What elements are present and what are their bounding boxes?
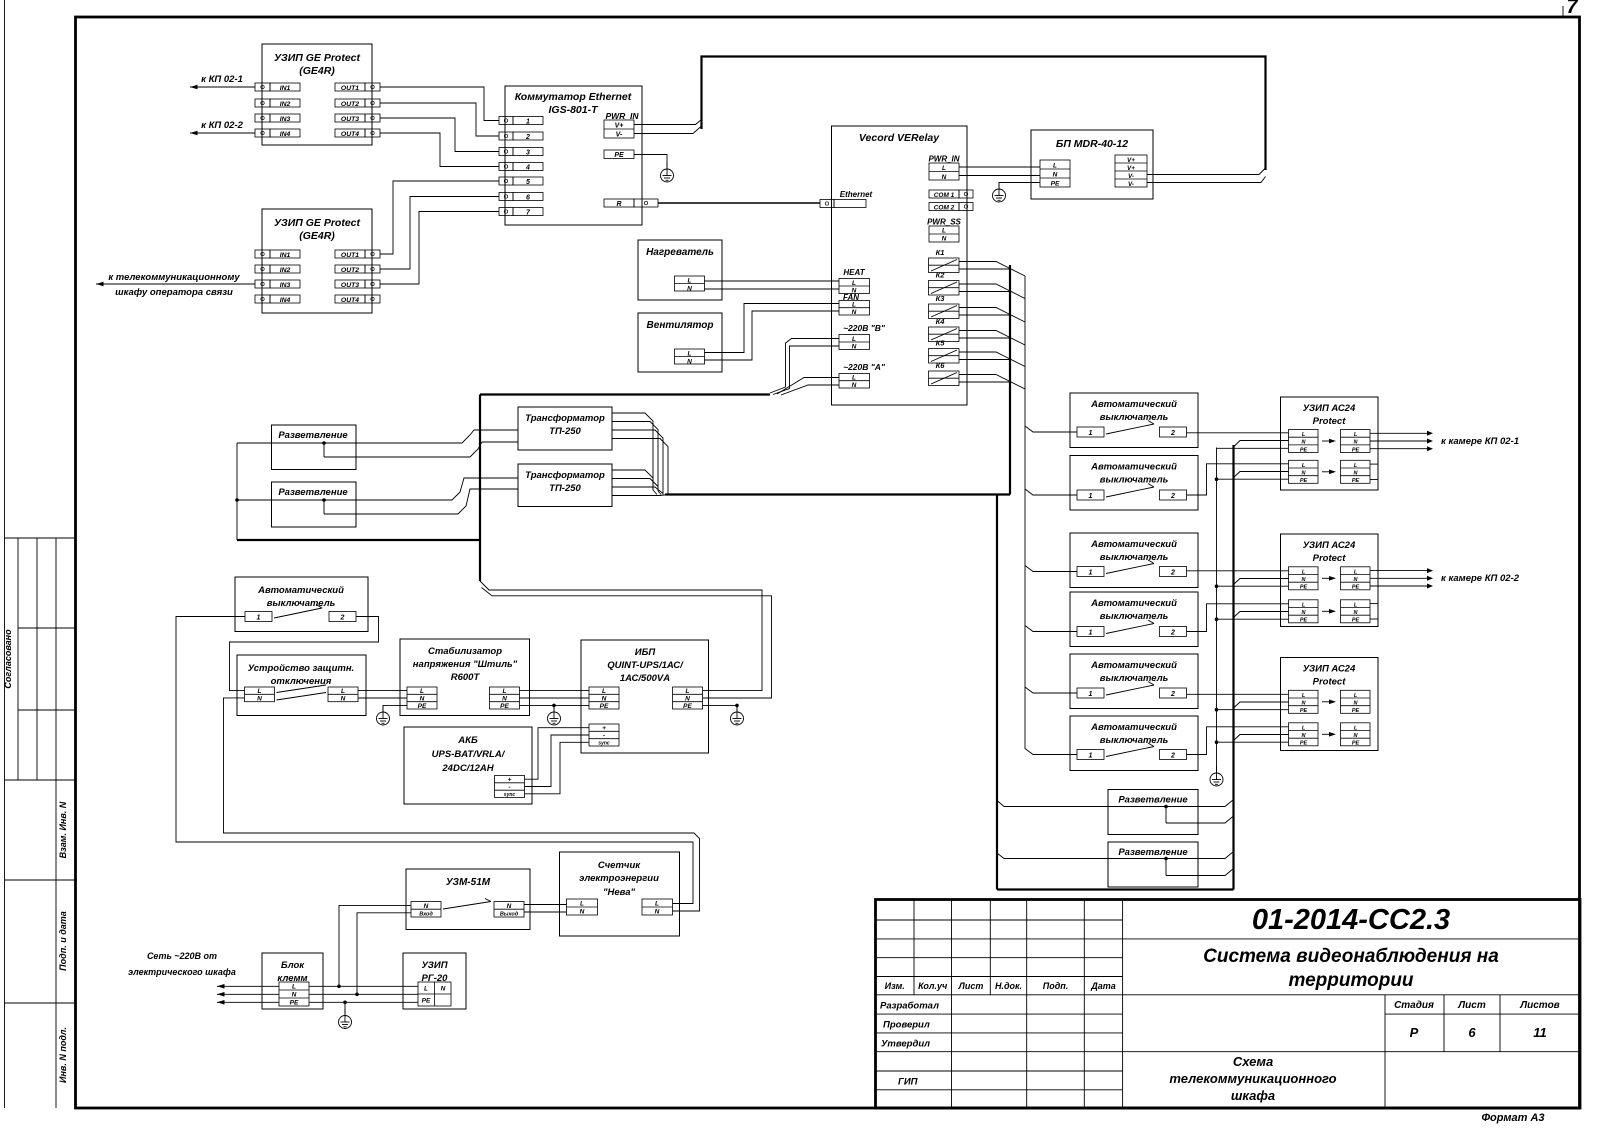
svg-text:V-: V- [1128, 181, 1134, 188]
wires relay K5 taps to risers [959, 352, 1010, 359]
svg-text:~220В "А": ~220В "А" [843, 362, 886, 372]
title block stage table [1394, 1000, 1560, 1011]
stabilizer output terminal L/N/PE [490, 687, 520, 710]
svg-text:sync: sync [504, 792, 516, 798]
svg-text:PE: PE [290, 1000, 299, 1007]
svg-text:V+: V+ [615, 123, 624, 130]
svg-text:N: N [687, 285, 692, 292]
УЗИП2 row2 output stubs [1370, 604, 1378, 619]
svg-text:OUT1: OUT1 [341, 85, 359, 92]
svg-text:PE: PE [1352, 741, 1360, 747]
battery terminal +/-/sync [495, 776, 525, 798]
svg-text:HEAT: HEAT [843, 268, 865, 277]
switch port 4 [499, 163, 543, 172]
svg-text:Коммутатор Ethernet: Коммутатор Ethernet [515, 91, 632, 103]
svg-text:2: 2 [525, 134, 530, 141]
УЗИП АС24 #2 row1 arrow [1322, 576, 1336, 581]
svg-text:UPS-BAT/VRLA/: UPS-BAT/VRLA/ [432, 749, 506, 760]
svg-text:Автоматический: Автоматический [1090, 598, 1177, 609]
VERelay PWR_SS terminal [927, 218, 961, 243]
wire splitter2 out top to transformer T2 [324, 478, 518, 500]
svg-text:Лист: Лист [958, 981, 984, 991]
svg-text:4: 4 [525, 165, 530, 172]
svg-text:шкафу оператора связи: шкафу оператора связи [115, 287, 233, 298]
U1 terminal IN1 [255, 83, 300, 92]
relay contact K1 [929, 248, 960, 273]
wire splitter1 out bottom to transformer T1 [324, 442, 518, 457]
svg-text:Vecord VERelay: Vecord VERelay [859, 132, 940, 144]
wire УЗМ input bottom from mains N riser [357, 913, 411, 995]
24V bus (thick): horizontal to relay riser [665, 493, 1010, 495]
svg-text:1АС/500VА: 1АС/500VА [620, 673, 670, 684]
wire switch V- tap to DC bus [634, 126, 702, 134]
svg-text:N: N [687, 358, 692, 365]
svg-text:1: 1 [1089, 570, 1093, 577]
svg-text:PE: PE [1300, 618, 1308, 624]
meter box: Счетчик электроэнергии "Нева" [560, 852, 680, 936]
svg-text:к телекоммуникационному: к телекоммуникационному [108, 272, 240, 283]
svg-text:L: L [420, 688, 424, 695]
svg-text:Разветвление: Разветвление [1118, 847, 1188, 858]
svg-text:COM 1: COM 1 [934, 192, 955, 199]
svg-text:PE: PE [1352, 585, 1360, 591]
svg-text:N: N [341, 696, 346, 703]
svg-text:L: L [292, 984, 296, 991]
switch PWR_IN terminal [604, 111, 639, 139]
wire RCD left N to meter (N) [224, 698, 700, 911]
svg-text:Разветвление: Разветвление [278, 487, 348, 498]
RCD switch blades [277, 685, 327, 700]
svg-text:БП MDR-40-12: БП MDR-40-12 [1056, 138, 1128, 150]
wires relay K6 taps to risers [959, 375, 1010, 382]
wires relay K3 taps to risers [959, 308, 1010, 315]
svg-text:Автоматический: Автоматический [1090, 399, 1177, 410]
УЗИП2 output wires to camera КП 02-2 [1370, 568, 1433, 588]
wire riser branch to QF7-1 [1025, 749, 1077, 755]
wire R to VERelay Ethernet [658, 202, 820, 204]
circuit breaker QF4 (right column #3) [1070, 533, 1198, 588]
wire battery + to UPS [525, 728, 590, 780]
wire fan L to FAN [705, 304, 840, 353]
svg-text:Подп. и дата: Подп. и дата [58, 911, 68, 971]
battery box: АКБ UPS-BAT/VRLA/24DC/12АН [404, 727, 532, 804]
wire battery - to UPS [525, 735, 590, 787]
wire N bus tap to УЗИП1 row2 N [1234, 472, 1289, 478]
svg-text:1: 1 [1089, 630, 1093, 637]
svg-text:+: + [602, 725, 606, 732]
svg-text:R: R [616, 201, 621, 208]
U2 terminal IN2 [255, 265, 300, 274]
svg-text:N: N [852, 344, 857, 351]
PSU output terminal V+/V+/V-/V- [1115, 155, 1147, 188]
page number 7 top right [1563, 0, 1578, 18]
svg-text:ТП-250: ТП-250 [549, 483, 581, 494]
svg-text:выключатель: выключатель [1100, 611, 1169, 622]
switch R terminal [604, 199, 658, 208]
svg-text:УЗИП АС24: УЗИП АС24 [1303, 540, 1356, 551]
svg-text:УЗМ-51М: УЗМ-51М [446, 877, 491, 888]
svg-text:L: L [686, 688, 690, 695]
wire PE riser tap to УЗИП3 row2 PE [1215, 740, 1289, 744]
svg-text:Protect: Protect [1313, 553, 1347, 564]
svg-text:Блок: Блок [281, 960, 305, 971]
meter left terminal L/N [567, 899, 598, 916]
svg-text:Н.док.: Н.док. [995, 981, 1022, 991]
svg-text:N: N [420, 695, 425, 702]
svg-text:PE: PE [683, 703, 692, 710]
circuit breaker QF2 (right column #1) [1070, 393, 1198, 448]
svg-text:УЗИП АС24: УЗИП АС24 [1303, 403, 1356, 414]
U1 terminal OUT1 [335, 83, 380, 92]
wire U2 OUT2 to port 6 [380, 197, 499, 270]
U2 terminal IN1 [255, 250, 300, 259]
svg-text:Разработал: Разработал [880, 1001, 939, 1012]
svg-text:L: L [341, 688, 345, 695]
VERelay ~220В "А" terminal [839, 362, 886, 389]
svg-text:IN3: IN3 [280, 282, 291, 289]
node к КП 02-2 input wire [190, 120, 255, 135]
svg-text:Инв. N подл.: Инв. N подл. [58, 1027, 68, 1083]
node к КП 02-1 input wire [190, 74, 255, 89]
svg-text:шкафа: шкафа [1231, 1088, 1275, 1103]
wire riser branch to QF6-1 [1025, 687, 1077, 693]
svg-text:N: N [292, 992, 297, 999]
svg-text:Счетчик: Счетчик [598, 860, 641, 871]
surge filter box: УЗМ-51М [406, 869, 530, 930]
svg-text:N: N [685, 695, 690, 702]
svg-text:L: L [503, 688, 507, 695]
U1 terminal IN3 [255, 114, 300, 123]
wire stabilizer PE to UPS with ground tap [520, 704, 590, 712]
RCD box: Устройство защитн. отключения [237, 655, 366, 716]
svg-text:L: L [942, 228, 946, 235]
svg-text:PE: PE [1352, 618, 1360, 624]
svg-text:COM 2: COM 2 [934, 205, 955, 212]
svg-text:N: N [441, 986, 446, 993]
svg-text:Устройство защитн.: Устройство защитн. [248, 663, 354, 674]
wire UPS output PE to ground [703, 704, 739, 712]
wire PSU PE to ground [999, 183, 1040, 190]
wire terminal strip L to УЗИП РГ-20 with riser node [309, 985, 418, 989]
svg-text:территории: территории [1288, 970, 1413, 991]
svg-text:R600T: R600T [451, 672, 481, 683]
circuit breaker QF1: Автоматический выключатель (left) [235, 577, 368, 632]
svg-text:N: N [602, 695, 607, 702]
VERelay Ethernet terminal [820, 190, 873, 208]
wire PE riser tap to УЗИП2 row2 PE [1215, 617, 1289, 621]
wire stabilizer N to UPS [520, 697, 590, 699]
svg-text:Разветвление: Разветвление [1118, 795, 1188, 806]
svg-text:Сеть ~220В от: Сеть ~220В от [147, 951, 217, 961]
ground at stabilizer-UPS PE link [548, 705, 561, 725]
svg-text:К1: К1 [936, 248, 945, 257]
ground at UPS output PE [731, 705, 744, 725]
svg-text:Р: Р [1410, 1025, 1419, 1040]
wire bus taps to ~220В "А" terminal [777, 378, 839, 395]
wire T1 output bundle to 24V bus [612, 413, 657, 495]
svg-text:Формат А3: Формат А3 [1481, 1112, 1544, 1124]
DC power bus from switch PWR_IN to PSU (thick) [702, 57, 1266, 171]
svg-text:N: N [942, 174, 947, 181]
wire riser branch to QF5-1 [1025, 626, 1077, 632]
svg-text:УЗИП: УЗИП [421, 960, 447, 971]
24V bus thick right vertical x1233.5 [1232, 445, 1234, 890]
relay module A4: Vecord VERelay [832, 126, 968, 405]
stabilizer box: Стабилизатор напряжения "Штиль" R600T [400, 639, 530, 716]
svg-text:Стабилизатор: Стабилизатор [428, 646, 502, 657]
splitter box: Разветвление 4 [1108, 842, 1198, 887]
wire RCD right to stabilizer L [358, 690, 407, 692]
svg-text:OUT1: OUT1 [341, 252, 359, 259]
VERelay PWR_IN terminal [928, 155, 959, 181]
U1 terminal OUT2 [335, 99, 380, 108]
transformer T2: Трансформатор ТП-250 [518, 464, 612, 507]
УЗИП АС24 #1 row1 terminal blocks [1289, 430, 1319, 454]
svg-text:L: L [688, 278, 692, 285]
wire heater N to HEAT [705, 288, 840, 290]
wire switch PE to ground [634, 155, 667, 170]
wire splitter3 outputs to right bus [1166, 800, 1234, 824]
surge protector box: УЗИП РГ-20 [403, 953, 466, 1009]
power supply A5: БП MDR-40-12 [1031, 130, 1153, 199]
svg-text:к КП 02-1: к КП 02-1 [201, 74, 243, 85]
УЗИП АС24 #2 row2 arrow [1322, 609, 1336, 614]
svg-text:N: N [852, 382, 857, 389]
sheet trim line left edge [4, 0, 6, 1108]
svg-text:PE: PE [1352, 447, 1360, 453]
svg-text:PWR_IN: PWR_IN [605, 111, 639, 121]
svg-text:1: 1 [1089, 753, 1093, 760]
svg-text:Листов: Листов [1519, 1000, 1559, 1011]
svg-text:Дата: Дата [1090, 981, 1116, 991]
svg-text:Лист: Лист [1457, 1000, 1486, 1011]
svg-text:IN2: IN2 [280, 267, 291, 274]
relay contact K4 [929, 317, 960, 342]
svg-text:N: N [424, 903, 429, 910]
node к телекоммуникационному шкафу input wire [96, 272, 255, 298]
U2 terminal IN4 [255, 295, 300, 304]
wire QF1 terminal2 down to RCD right side [230, 617, 379, 691]
svg-text:PE: PE [600, 703, 609, 710]
wire PE riser tap to УЗИП2 row1 PE [1215, 584, 1289, 588]
splitter box: Разветвление 3 [1108, 790, 1198, 835]
wire splitter4 outputs to right bus [1166, 852, 1234, 876]
svg-text:выключатель: выключатель [1100, 552, 1169, 563]
УЗИП АС24 #2 row2 terminal blocks [1289, 600, 1319, 624]
wire U2 OUT3 to port 7 [380, 212, 499, 285]
svg-text:IN4: IN4 [280, 131, 291, 138]
RCD left terminal L/N [245, 687, 275, 703]
QF1 switch blade [274, 605, 322, 619]
UPS output pair to 220V bus (wire 2) [482, 588, 772, 699]
terminal strip L/N/PE [279, 982, 309, 1007]
svg-text:L: L [942, 165, 946, 172]
svg-text:L: L [424, 986, 428, 993]
svg-text:1: 1 [257, 615, 261, 622]
title block signature rows [880, 1001, 939, 1088]
svg-text:выключатель: выключатель [1100, 673, 1169, 684]
wire QF6-2 to УЗИП3 row1 L [1187, 693, 1289, 695]
svg-text:PE: PE [1051, 180, 1060, 187]
svg-text:V-: V- [1128, 173, 1134, 180]
svg-text:IGS-801-T: IGS-801-T [548, 104, 599, 116]
svg-text:PE: PE [1352, 478, 1360, 484]
svg-text:Трансформатор: Трансформатор [525, 470, 605, 481]
svg-text:электрического шкафа: электрического шкафа [128, 967, 236, 977]
svg-text:ИБП: ИБП [635, 647, 656, 658]
circuit breaker QF3 (right column #2) [1070, 456, 1198, 511]
surge protector box: УЗИП АС24 Protect #1 [1281, 397, 1379, 490]
wire splitter1 out top to transformer T1 [324, 430, 518, 443]
wire terminal strip PE to УЗИП РГ-20 with ground tap [309, 1001, 418, 1016]
svg-text:3: 3 [526, 150, 530, 157]
surge protector U1: УЗИП GE Protect (GE4R) upper [262, 44, 372, 145]
surge protector box: УЗИП АС24 Protect #3 [1281, 658, 1379, 751]
wires relay K4 taps to risers [959, 331, 1010, 338]
VERelay COM 2 terminal [929, 203, 973, 212]
svg-text:1: 1 [1089, 430, 1093, 437]
wire riser branch to QF2-1 [1025, 426, 1077, 432]
svg-text:L: L [655, 901, 659, 908]
svg-text:Схема: Схема [1233, 1054, 1273, 1069]
svg-text:6: 6 [526, 195, 530, 202]
svg-text:6: 6 [1468, 1025, 1476, 1040]
УЗИП АС24 #1 row2 arrow [1322, 470, 1336, 475]
VERelay FAN terminal [839, 293, 870, 316]
QF1 terminal 1 [245, 612, 272, 622]
УЗИП1 output wires to camera КП 02-1 [1370, 431, 1433, 451]
wire УЗМ output to meter left terminal [524, 905, 567, 913]
surge protector box: УЗИП АС24 Protect #2 [1281, 534, 1379, 627]
svg-text:7: 7 [1566, 0, 1578, 18]
wire PE riser corner to УЗИП1 row1 PE [1217, 447, 1289, 449]
svg-text:АКБ: АКБ [457, 735, 478, 746]
УЗМ left terminal N/Вход [411, 902, 441, 918]
220V distribution bus (thick): horizontal to VERelay area [480, 393, 770, 395]
svg-text:1: 1 [526, 119, 530, 126]
svg-text:IN1: IN1 [280, 252, 291, 259]
switch port 7 [499, 208, 543, 217]
svg-text:Выход: Выход [500, 912, 519, 918]
svg-text:N: N [1053, 171, 1058, 178]
wire QF4-2 to УЗИП2 row1 L [1187, 570, 1289, 572]
title block grid lines [876, 900, 1581, 1109]
svg-text:(GE4R): (GE4R) [299, 230, 335, 242]
fan terminal L/N [675, 349, 705, 365]
svg-text:V-: V- [616, 132, 623, 139]
svg-text:IN1: IN1 [280, 85, 291, 92]
wire RCD right to stabilizer N [358, 697, 407, 699]
svg-text:Нагреватель: Нагреватель [646, 247, 714, 258]
svg-text:OUT3: OUT3 [341, 282, 359, 289]
svg-text:V+: V+ [1127, 157, 1135, 164]
svg-text:Утвердил: Утвердил [881, 1038, 930, 1049]
meter right terminal L/N [642, 899, 673, 916]
wire U1 OUT4 to port 4 [380, 133, 499, 167]
svg-text:телекоммуникационного: телекоммуникационного [1169, 1071, 1336, 1086]
svg-text:Согласовано: Согласовано [3, 629, 13, 689]
svg-text:УЗИП GE Protect: УЗИП GE Protect [274, 217, 361, 229]
circuit breaker QF7 (right column #6) [1070, 716, 1198, 771]
relay contact K6 [929, 361, 960, 386]
svg-text:N: N [507, 903, 512, 910]
terminal strip box: Блок клемм [262, 953, 323, 1009]
fan box: Вентилятор [638, 313, 722, 372]
svg-text:Изм.: Изм. [885, 981, 905, 991]
svg-text:PE: PE [1300, 741, 1308, 747]
switch port 6 [499, 193, 543, 202]
svg-text:Проверил: Проверил [883, 1020, 930, 1031]
wire U1 OUT1 to port 1 [380, 87, 499, 121]
wire PSU V+ tap to DC bus [1147, 168, 1266, 175]
wire QF7-2 up to УЗИП3 row2 L [1187, 727, 1289, 755]
wire terminal strip N to УЗИП РГ-20 with riser node [309, 993, 418, 997]
svg-text:PE: PE [422, 998, 431, 1005]
svg-text:К3: К3 [936, 294, 946, 303]
wire PSU V- tap to DC bus [1147, 177, 1266, 183]
svg-text:выключатель: выключатель [1100, 412, 1169, 423]
wire N bus tap to УЗИП1 row1 N [1234, 441, 1289, 448]
wire QF1 terminal1 to meter (L) [176, 617, 693, 904]
switch port 2 [499, 132, 543, 141]
svg-text:Взам. Инв. N: Взам. Инв. N [58, 801, 68, 858]
wire riser branch to QF4-1 [1025, 566, 1077, 572]
УЗИП АС24 #3 row1 terminal blocks [1289, 690, 1319, 714]
wires relay K2 taps to risers [959, 284, 1010, 291]
wire riser branch to QF3-1 [1025, 489, 1077, 495]
24V bus thick bottom horizontal [997, 888, 1234, 890]
wires relay K1 taps to risers [959, 262, 1010, 269]
wire QF3-2 up to УЗИП1 row2 L [1187, 464, 1289, 495]
heater terminal L/N [675, 276, 705, 292]
ground at switch PE [661, 162, 674, 182]
svg-text:L: L [258, 688, 262, 695]
title block object name [1203, 946, 1499, 991]
svg-text:N: N [852, 309, 857, 316]
wire PE riser tap to УЗИП3 row1 PE [1215, 708, 1289, 712]
svg-text:5: 5 [526, 179, 530, 186]
wire splitter2 out bottom to transformer T2 [324, 489, 518, 514]
220V bus thick vertical riser x480 [479, 395, 481, 582]
UPS output pair to 220V bus (wire 1) [480, 581, 762, 691]
svg-text:PE: PE [614, 152, 624, 159]
svg-text:PE: PE [1352, 708, 1360, 714]
stabilizer input terminal L/N/PE [407, 687, 437, 710]
splitter box: Разветвление 2 [272, 482, 357, 527]
svg-text:"Нева": "Нева" [603, 887, 636, 898]
svg-text:N: N [580, 909, 585, 916]
svg-text:Ethernet: Ethernet [840, 190, 873, 199]
svg-text:К5: К5 [936, 339, 946, 348]
svg-text:PE: PE [1300, 708, 1308, 714]
switch port 5 [499, 177, 543, 186]
svg-text:N: N [257, 696, 262, 703]
ground at PSU PE [993, 182, 1006, 202]
wire QF2-2 to УЗИП1 row1 L [1187, 432, 1289, 434]
svg-text:OUT3: OUT3 [341, 116, 359, 123]
УЗИП РГ-20 terminal grid [418, 982, 451, 1006]
U2 terminal OUT3 [335, 280, 380, 289]
wire УЗМ input top from mains L riser [339, 905, 411, 986]
svg-text:электроэнергии: электроэнергии [579, 873, 659, 884]
wire U1 OUT3 to port 3 [380, 118, 499, 152]
wire U2 OUT1 to port 5 [380, 181, 499, 254]
svg-text:L: L [852, 336, 856, 343]
svg-text:К6: К6 [936, 361, 946, 370]
svg-text:УЗИП АС24: УЗИП АС24 [1303, 664, 1356, 675]
wire heater L to HEAT [705, 280, 840, 282]
switched 24V riser x1025 to breakers [1024, 276, 1026, 749]
